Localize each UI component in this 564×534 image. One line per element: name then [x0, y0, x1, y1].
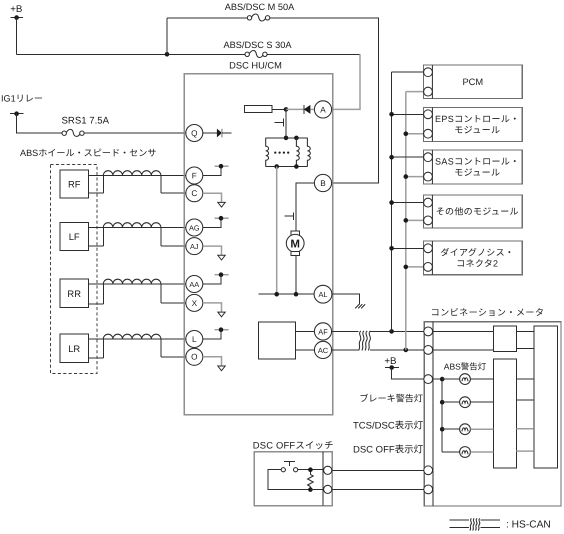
svg-text:ダイアグノシス・: ダイアグノシス・ [440, 247, 514, 257]
wire CAN-H from pin AF to meter [332, 330, 424, 332]
wire LF signal (top) to pin AG with twisted-pair humps [88, 223, 186, 228]
wire switch right leg to pin [298, 469, 324, 471]
node dot coil return on AL rail [274, 292, 279, 297]
node dot coil junction top [294, 136, 299, 141]
pin AJ [186, 238, 203, 255]
svg-text:Q: Q [191, 129, 197, 138]
node dot CAN-H joins bus [389, 329, 394, 334]
wire twisted pair drop to pin AJ [161, 228, 186, 247]
wire twisted pair drop to pin X [161, 284, 186, 303]
transistor Q2 (pump motor MOSFET) [284, 211, 296, 221]
wire bus tap to PCM pin 1 [392, 71, 424, 73]
meter connector pin (switch 2) [424, 485, 433, 494]
wire RF signal (top) to pin F with twisted-pair humps [88, 171, 186, 176]
module box diagnostic connector 2 [424, 241, 523, 275]
coil L3 (right solenoid) [307, 138, 310, 167]
svg-text:AL: AL [318, 290, 327, 299]
pin AG [186, 219, 203, 236]
fuse ABS/DSC M 50A [167, 2, 295, 21]
wire twisted pair drop to pin C [161, 176, 186, 194]
node dot diagnostic tap gray bus [404, 265, 409, 270]
svg-text:L: L [192, 335, 197, 344]
svg-text:ABS/DSC M 50A: ABS/DSC M 50A [225, 2, 295, 12]
DSC HU/CM unit box [184, 61, 333, 415]
wire LR return (bottom) riser to twisted pair [88, 339, 103, 358]
wire bus tap to SAS pin 1 [392, 156, 424, 158]
diode D2 to pin A [286, 105, 314, 114]
wire U1 to pin AC [296, 349, 315, 351]
wire twisted pair drop to pin O [161, 339, 186, 357]
node dot other-modules tap gray bus [404, 218, 409, 223]
svg-text:ABS警告灯: ABS警告灯 [444, 362, 487, 372]
wire S 30A feed down to pin A (gray) [332, 54, 360, 109]
module box other modules [424, 195, 523, 228]
wire bus tap to EPS pin 1 [392, 113, 424, 115]
svg-text:AJ: AJ [190, 242, 199, 251]
wire lamp feed branch inside meter [433, 379, 443, 452]
pin X [186, 294, 203, 311]
node dot lamp branch row 1 [440, 377, 445, 382]
internal supply tap after pin L [203, 327, 229, 339]
node dot bottom rail right [294, 164, 299, 169]
transistor Q1 (valve driver MOSFET) [275, 109, 286, 137]
wire M 50A fuse output to pin B [270, 18, 379, 183]
wire switch pin 2 to meter [332, 488, 424, 490]
lamp TCS/DSC indicator [442, 424, 534, 435]
solenoid valve coil bank top rail [266, 137, 308, 139]
pin C [186, 185, 203, 202]
wire CAN-H vertical bus [391, 72, 393, 331]
wire meter CAN-L internal [433, 348, 534, 350]
svg-text:DSC HU/CM: DSC HU/CM [229, 61, 282, 71]
node dot motor return on AL rail [294, 292, 299, 297]
node dot other-modules tap [389, 200, 394, 205]
svg-text:ABSホイール・スピード・センサ: ABSホイール・スピード・センサ [20, 148, 156, 158]
wire +B feed horizontal to fuses [17, 53, 248, 55]
node junction dot at fuse branch [165, 52, 170, 57]
lamp ABS warning [442, 374, 534, 385]
internal supply tap after pin AG [203, 216, 229, 228]
svg-text:ABS/DSC S 30A: ABS/DSC S 30A [224, 40, 293, 50]
node dot resistor top [308, 467, 313, 472]
node dot SAS tap [389, 155, 394, 160]
wire bus tap to diagnostic connector pin 2 (gray) [406, 266, 424, 268]
svg-text:SASコントロール・: SASコントロール・ [435, 156, 520, 166]
wire resistor bottom to pin 2 [310, 489, 323, 491]
svg-text:AA: AA [189, 280, 199, 289]
coil L1 (left solenoid) [266, 138, 269, 167]
wire switch pin 1 to meter [332, 469, 424, 471]
internal supply tap after pin AA [203, 272, 229, 284]
meter connector pin (switch 1) [424, 466, 433, 475]
svg-text:モジュール: モジュール [454, 125, 500, 135]
svg-text:AG: AG [189, 223, 200, 232]
meter main block (right) [534, 326, 558, 468]
internal ground after pin O [203, 357, 225, 371]
svg-text:X: X [192, 299, 198, 308]
svg-text:M: M [290, 238, 300, 250]
node dot diagnostic tap [389, 246, 394, 251]
pin AC [314, 341, 331, 358]
wire meter CAN-H internal [433, 330, 534, 332]
switch connector pin 2 [324, 485, 332, 493]
pin O [186, 348, 203, 365]
wire CAN-L vertical bus (gray) [405, 92, 407, 350]
svg-text:IG1リレー: IG1リレー [1, 93, 43, 103]
svg-text:RF: RF [68, 179, 81, 190]
svg-text:RR: RR [67, 288, 81, 299]
solenoid valve coil bank bottom rail [266, 166, 308, 168]
wire CAN-L from pin AC to meter [332, 349, 424, 351]
wire RR signal (top) to pin AA with twisted-pair humps [88, 279, 186, 284]
wire bus tap to PCM pin 2 (gray) [406, 91, 424, 93]
wire LF return (bottom) riser to twisted pair [88, 228, 103, 247]
svg-text:コネクタ2: コネクタ2 [456, 259, 498, 269]
pin F [186, 167, 203, 184]
internal supply tap after pin F [203, 164, 229, 176]
svg-text:モジュール: モジュール [454, 168, 500, 178]
svg-text:ブレーキ警告灯: ブレーキ警告灯 [359, 394, 423, 404]
wire pin AL to chassis ground [332, 294, 360, 305]
DSC OFF switch box [253, 439, 334, 505]
wire bus tap to SAS pin 2 (gray) [406, 176, 424, 178]
lamp brake warning [442, 397, 534, 408]
svg-text:F: F [192, 171, 197, 180]
node junction at MOSFET drain [284, 107, 289, 112]
sensor LF wheel-speed sensor [60, 223, 88, 251]
internal ground after pin C [203, 193, 225, 207]
svg-text:+B: +B [10, 4, 22, 15]
node dot lamp branch row 3 [440, 427, 445, 432]
svg-text:C: C [191, 189, 197, 198]
svg-text:DSC OFF表示灯: DSC OFF表示灯 [353, 444, 424, 455]
pin Q [186, 125, 203, 142]
fuse SRS1 7.5A [62, 115, 110, 136]
pin B [314, 174, 331, 191]
svg-text:B: B [320, 179, 326, 188]
svg-text:O: O [191, 353, 197, 362]
wire switch left leg [268, 470, 310, 490]
svg-text:AC: AC [318, 346, 329, 355]
CAN controller block U1 [258, 322, 295, 359]
node dot bottom rail left [274, 164, 279, 169]
node dot EPS tap gray bus [404, 131, 409, 136]
wire R1 to junction [272, 108, 286, 110]
resistor R2 (switch pull-up) [308, 470, 314, 490]
wire bus tap to other-modules pin 2 (gray) [406, 219, 424, 221]
svg-text:SRS1 7.5A: SRS1 7.5A [62, 115, 110, 126]
wire +B vertical drop [16, 18, 18, 55]
wire S 30A fuse output [267, 53, 360, 55]
wire bus tap to diagnostic connector pin 1 [392, 247, 424, 249]
dashed enclosure ABS wheel-speed sensors [51, 165, 98, 374]
ellipsis dots (more solenoids) [274, 152, 289, 154]
pin AA [186, 276, 203, 293]
pin AL [314, 285, 332, 303]
combination meter box [424, 308, 561, 506]
meter connector pin (CAN-H) [424, 327, 433, 336]
internal ground after pin AJ [203, 246, 225, 260]
node dot lamp branch row 2 [440, 400, 445, 405]
wire bus tap to EPS pin 2 (gray) [406, 133, 424, 135]
lamp DSC OFF indicator [442, 447, 534, 458]
node +B battery feed (top left) [10, 4, 23, 20]
svg-text:A: A [320, 105, 326, 114]
pin L [186, 331, 203, 348]
module box SAS control module [424, 150, 523, 184]
svg-text:+B: +B [384, 356, 396, 367]
wire branch up to ABS/DSC M 50A fuse [166, 18, 168, 55]
wire U1 to pin AF [296, 330, 315, 332]
wire coil return down to AL rail (gray) [276, 167, 278, 295]
svg-text:LF: LF [69, 231, 80, 242]
module box PCM [424, 65, 523, 99]
wire LR signal (top) to pin L with twisted-pair humps [88, 334, 186, 339]
ground chassis symbol [355, 304, 365, 308]
pin A [314, 101, 331, 118]
wire IG1 drop [17, 114, 63, 134]
sensor RF wheel-speed sensor [60, 170, 88, 198]
svg-text:TCS/DSC表示灯: TCS/DSC表示灯 [353, 421, 424, 432]
sensor RR wheel-speed sensor [60, 279, 88, 308]
diode D1 after pin Q [203, 129, 232, 138]
node dot MOSFET source on rail [284, 136, 289, 141]
node +B meter lamp feed [384, 356, 423, 379]
wire pin B to motor MOSFET [296, 183, 314, 211]
svg-text:LR: LR [68, 343, 80, 354]
svg-text:PCM: PCM [462, 77, 483, 87]
meter CAN node block [493, 326, 516, 351]
sensor LR wheel-speed sensor [60, 334, 88, 363]
node dot resistor bottom [308, 487, 313, 492]
wire RF return (bottom) riser to twisted pair [88, 176, 103, 194]
wire RR return (bottom) riser to twisted pair [88, 284, 103, 304]
twisted-pair symbol on CAN bus [359, 331, 371, 351]
switch connector pin 1 [324, 466, 332, 474]
fuse ABS/DSC S 30A [224, 40, 293, 57]
coil L2 (middle solenoid) [296, 138, 299, 167]
wire SRS1 fuse to pin Q [84, 132, 186, 134]
svg-text:AF: AF [318, 327, 328, 336]
internal ground after pin X [203, 303, 225, 317]
node dot SAS tap gray bus [404, 174, 409, 179]
node dot EPS tap [389, 112, 394, 117]
svg-text:: HS-CAN: : HS-CAN [506, 519, 551, 530]
svg-text:DSC OFFスイッチ: DSC OFFスイッチ [253, 439, 334, 450]
node dot CAN-L joins bus [404, 348, 409, 353]
motor M1 (pump motor) [286, 221, 304, 294]
svg-text:EPSコントロール・: EPSコントロール・ [435, 114, 520, 124]
wire AL ground rail [258, 293, 314, 295]
meter connector pin (CAN-L) [424, 346, 433, 355]
meter connector pin (+B lamps) [424, 375, 433, 384]
meter lamp driver block [493, 359, 516, 468]
wire bus tap to other-modules pin 1 [392, 202, 424, 204]
resistor R1 (solenoid driver) [244, 106, 272, 113]
svg-text:その他のモジュール: その他のモジュール [436, 207, 519, 217]
svg-text:コンビネーション・メータ: コンビネーション・メータ [431, 308, 545, 318]
module box EPS control module [424, 107, 523, 141]
switch SW1 momentary contact [281, 461, 298, 472]
node IG1 relay feed [1, 93, 43, 116]
pin AF [314, 323, 331, 340]
legend HS-CAN twisted pair [449, 518, 550, 530]
